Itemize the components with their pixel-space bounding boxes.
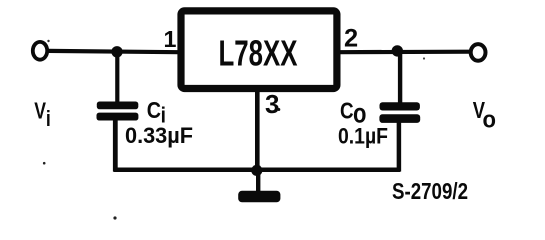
speck left of ground rail	[43, 162, 46, 165]
capacitor Co	[379, 102, 420, 123]
svg-text:C: C	[147, 96, 162, 123]
svg-text:o: o	[483, 105, 496, 132]
svg-text:S-2709/2: S-2709/2	[392, 178, 468, 204]
node junction on output wire	[392, 45, 403, 56]
wire input terminal to pin 1	[48, 51, 180, 52]
ground node junction	[251, 165, 262, 176]
output terminal (right circle)	[471, 44, 486, 61]
speck near input circle	[47, 40, 49, 42]
svg-text:0.33µF: 0.33µF	[125, 123, 193, 148]
capacitor label Ci	[147, 96, 166, 128]
input terminal (left circle)	[33, 42, 47, 60]
wire junction down to Ci	[115, 51, 119, 104]
capacitor label Co	[340, 97, 366, 129]
speck bottom left area	[113, 216, 116, 219]
svg-text:V: V	[34, 98, 46, 124]
speck under output wire	[423, 57, 425, 59]
svg-text:3: 3	[265, 89, 279, 119]
svg-text:L78XX: L78XX	[219, 33, 298, 74]
wire pin 3 down to ground node	[255, 90, 260, 171]
ground stub wire	[256, 170, 260, 192]
wire Ci down to ground rail	[113, 120, 118, 172]
svg-text:i: i	[46, 107, 51, 131]
svg-text:2: 2	[344, 24, 358, 52]
net label Vi	[34, 98, 50, 131]
wire Co down to ground rail	[397, 122, 402, 172]
svg-text:0.1µF: 0.1µF	[338, 124, 388, 149]
capacitor Ci	[97, 102, 139, 121]
wire junction down to Co	[398, 51, 402, 104]
speck after pin 3 label	[277, 108, 280, 111]
regulator IC U1 box	[181, 11, 337, 89]
net label Vo	[473, 98, 496, 132]
svg-text:1: 1	[164, 26, 177, 52]
node junction on input wire	[111, 46, 122, 57]
ground rail wire (bottom horizontal)	[114, 167, 401, 172]
svg-text:C: C	[340, 97, 354, 124]
ground symbol bar	[238, 191, 280, 203]
wire pin 2 to output terminal	[339, 50, 471, 55]
